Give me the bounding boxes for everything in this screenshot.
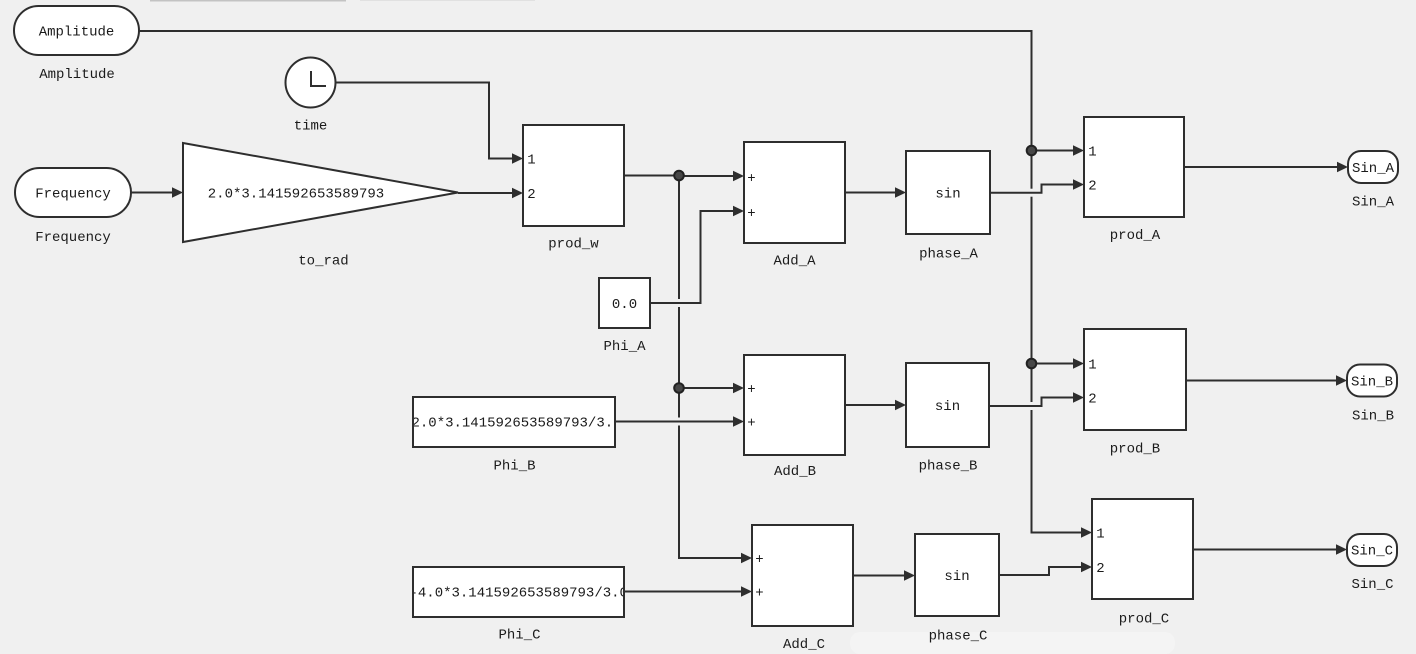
svg-text:Phi_A: Phi_A [603,339,646,355]
svg-text:+: + [755,552,763,568]
svg-text:+: + [747,171,755,187]
svg-text:sin: sin [944,569,969,585]
svg-text:2: 2 [1088,179,1096,195]
svg-text:Add_A: Add_A [773,254,816,270]
svg-text:prod_C: prod_C [1119,612,1169,628]
svg-text:Sin_C: Sin_C [1351,577,1393,593]
svg-text:Add_C: Add_C [783,637,825,653]
svg-text:0.0: 0.0 [612,297,637,313]
svg-text:to_rad: to_rad [298,254,348,270]
svg-text:Sin_A: Sin_A [1352,161,1395,177]
svg-text:Add_B: Add_B [774,464,816,480]
svg-text:+: + [747,382,755,398]
svg-text:1: 1 [1096,527,1104,543]
svg-text:2.0*3.141592653589793: 2.0*3.141592653589793 [208,187,384,203]
svg-text:2: 2 [1096,561,1104,577]
svg-text:1: 1 [1088,358,1096,374]
svg-text:phase_C: phase_C [929,629,988,645]
svg-text:Sin_B: Sin_B [1352,409,1394,425]
svg-text:prod_B: prod_B [1110,442,1160,458]
svg-text:+: + [755,586,763,602]
svg-text:Sin_A: Sin_A [1352,195,1395,211]
svg-text:1: 1 [527,153,535,169]
svg-text:1: 1 [1088,145,1096,161]
svg-text:Amplitude: Amplitude [39,25,115,41]
svg-text:-4.0*3.141592653589793/3.0: -4.0*3.141592653589793/3.0 [410,586,628,602]
svg-text:phase_B: phase_B [919,459,978,475]
svg-text:2: 2 [527,187,535,203]
svg-text:Frequency: Frequency [35,187,111,203]
svg-text:sin: sin [935,399,960,415]
svg-text:Frequency: Frequency [35,230,111,246]
svg-text:time: time [294,119,328,135]
svg-text:Phi_C: Phi_C [498,628,540,644]
svg-text:phase_A: phase_A [919,247,978,263]
svg-text:+: + [747,416,755,432]
svg-text:prod_w: prod_w [548,237,599,253]
svg-text:2.0*3.141592653589793/3.0: 2.0*3.141592653589793/3.0 [412,416,622,432]
svg-text:sin: sin [935,187,960,203]
svg-text:Sin_B: Sin_B [1351,375,1393,391]
svg-text:Sin_C: Sin_C [1351,544,1393,560]
svg-text:+: + [747,206,755,222]
svg-text:Amplitude: Amplitude [39,67,115,83]
svg-text:prod_A: prod_A [1110,228,1161,244]
svg-text:Phi_B: Phi_B [493,459,535,475]
svg-text:2: 2 [1088,392,1096,408]
